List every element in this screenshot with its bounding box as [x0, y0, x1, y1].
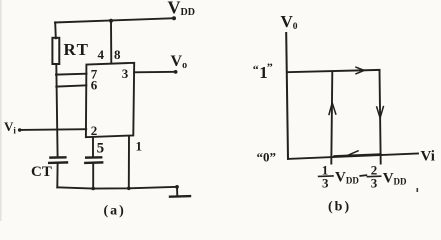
page left edge artifact — [0, 0, 2, 221]
junction dot pin1 to ground rail — [127, 187, 131, 191]
svg-text:”: ” — [267, 60, 273, 74]
terminal dot VDD — [172, 16, 176, 20]
svg-text:(b): (b) — [328, 200, 351, 215]
wire: pin 3 output to Vo terminal — [134, 71, 176, 74]
svg-text:RT: RT — [64, 40, 90, 59]
wire: pins 4/8 up to VDD rail — [110, 21, 112, 64]
arrow left on return segment — [347, 151, 358, 156]
fraction bar of 2/3 — [367, 175, 380, 178]
hysteresis return segment at logic 0 level — [335, 154, 381, 156]
svg-text:3: 3 — [371, 175, 378, 190]
wire: left rail from VDD rail to RT top — [54, 22, 57, 38]
terminal dot Vo — [174, 70, 178, 74]
wire: pin5 capacitor to ground rail — [92, 164, 94, 189]
capacitor CT bottom plate — [49, 161, 67, 164]
hysteresis rising segment at 1/3 VDD — [331, 72, 332, 164]
svg-text:(a): (a) — [104, 203, 126, 218]
svg-text:CT: CT — [31, 164, 52, 180]
ground symbol — [175, 185, 179, 189]
svg-text:Vi: Vi — [421, 148, 435, 164]
svg-text:2: 2 — [91, 123, 98, 138]
svg-text:1: 1 — [136, 138, 143, 153]
axis Vo (graph y-axis) — [286, 33, 288, 159]
wire: pin 5 stub down — [92, 137, 94, 157]
dash between the two threshold labels — [360, 174, 366, 177]
small speck artifact — [417, 188, 419, 192]
capacitor on pin 5 top plate — [86, 156, 101, 159]
arrow down on falling segment — [377, 107, 384, 118]
axis Vi (graph x-axis) — [288, 154, 418, 159]
svg-text:6: 6 — [91, 78, 98, 93]
junction dot pin5-cap to ground rail — [91, 187, 95, 191]
arrow up on rising segment — [329, 103, 336, 115]
wire: pin 1 down to ground rail — [128, 136, 130, 188]
resistor RT — [52, 38, 59, 64]
junction dot pins4-8 on VDD rail — [109, 19, 113, 23]
arrow right on top segment — [356, 67, 364, 74]
fraction bar of 1/3 — [319, 175, 333, 177]
svg-text:4: 4 — [98, 47, 105, 62]
wire: branch to pin 6 — [56, 85, 86, 86]
capacitor on pin 5 bottom plate — [85, 161, 102, 164]
terminal dot Vi — [18, 128, 22, 132]
hysteresis top segment at logic 1 level — [287, 70, 380, 72]
svg-text:“: “ — [253, 62, 259, 76]
svg-text:3: 3 — [122, 66, 129, 81]
svg-text:5: 5 — [97, 141, 105, 157]
wire: ground rail — [57, 187, 177, 189]
svg-text:“0”: “0” — [257, 149, 277, 164]
wire: CT bottom to ground rail — [56, 164, 58, 188]
wire: left rail RT bottom to CT top — [56, 64, 57, 157]
svg-text:3: 3 — [322, 175, 329, 190]
capacitor CT top plate — [50, 156, 65, 159]
wire: branch to pin 7 — [56, 73, 87, 76]
svg-text:8: 8 — [114, 47, 121, 62]
wire: Vi input to pin 2 — [21, 128, 86, 131]
wire: VDD top rail — [55, 18, 174, 22]
op-amp/timer IC U1 (555) body — [86, 63, 134, 137]
hysteresis falling segment at 2/3 VDD — [380, 70, 381, 164]
